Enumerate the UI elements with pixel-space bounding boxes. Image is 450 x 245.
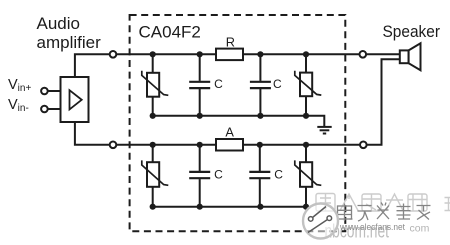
watermark light outline characters [316, 194, 450, 212]
resistor A [216, 139, 243, 151]
terminal Vin- [41, 106, 48, 113]
wire top rail [75, 54, 400, 77]
svg-text:amplifier: amplifier [37, 33, 102, 52]
svg-text:Vin+: Vin+ [8, 77, 31, 94]
watermark gray characters [338, 203, 431, 222]
svg-text:Speaker: Speaker [383, 22, 441, 41]
svg-text:C: C [214, 168, 223, 182]
op-amp U1 audio amplifier [61, 77, 89, 122]
terminal mid rail left [110, 142, 117, 149]
svg-text:A: A [225, 124, 234, 139]
speaker LS1 [400, 43, 421, 70]
svg-text:Vin-: Vin- [8, 97, 29, 114]
resistor R [216, 49, 243, 61]
svg-text:CA04F2: CA04F2 [139, 22, 201, 41]
wire input Vin- [48, 108, 61, 110]
svg-text:Audio: Audio [37, 14, 80, 33]
varistor RV3 bottom-left [142, 145, 169, 207]
wire top network bottom rail [153, 116, 325, 127]
svg-text:C: C [214, 77, 223, 91]
svg-text:C: C [274, 168, 283, 182]
capacitor C2 top-right [250, 54, 271, 116]
wire bottom network bottom rail [153, 206, 306, 208]
ground [317, 127, 331, 134]
label Audio amplifier [37, 14, 102, 52]
terminal top rail left [110, 51, 117, 58]
module outline CA04F2 dashed box [130, 15, 346, 231]
svg-text:C: C [273, 77, 282, 91]
wire mid rail [75, 59, 400, 145]
varistor RV4 bottom-right [295, 145, 322, 207]
capacitor C3 bottom-left [189, 145, 210, 207]
capacitor C4 bottom-right [249, 145, 270, 207]
terminal mid rail right [360, 142, 367, 149]
watermark partial character at right edge [445, 198, 450, 211]
varistor RV2 top-right [295, 54, 322, 116]
svg-text:R: R [226, 35, 235, 50]
terminal top rail right [360, 51, 367, 58]
capacitor C1 top-left [189, 54, 210, 116]
wire input Vin+ [48, 90, 61, 92]
terminal Vin+ [41, 88, 48, 95]
watermark logo circle [303, 204, 338, 239]
svg-text:com: com [410, 222, 430, 234]
junction dots [150, 51, 310, 210]
varistor RV1 top-left [142, 54, 169, 116]
svg-text:www.elecfans.net: www.elecfans.net [339, 222, 405, 232]
